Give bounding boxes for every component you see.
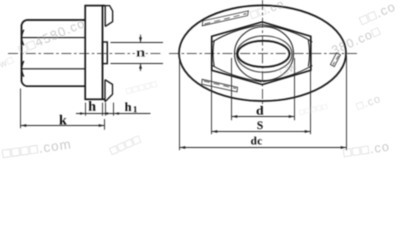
dimension d : extension lines bbox=[232, 58, 295, 120]
flange plate bbox=[85, 6, 105, 100]
dimension k : extension lines bbox=[21, 89, 105, 130]
dimension dc : arrows bbox=[180, 146, 347, 149]
nut chamfer arcs on left edge bbox=[22, 30, 24, 77]
dimension d : label bbox=[257, 106, 264, 115]
hexagon outline bbox=[212, 22, 311, 85]
dimension S : label bbox=[257, 121, 262, 129]
dimension k : label bbox=[59, 115, 66, 125]
pilot boss bbox=[103, 42, 108, 64]
hex nut body (side view) bbox=[22, 20, 86, 86]
dimension h : label bbox=[89, 101, 96, 111]
nut face lines bbox=[22, 38, 86, 69]
dimension h and h1 : extension lines bbox=[76, 103, 151, 116]
thread hole circle bbox=[238, 41, 290, 67]
vertical centerline bbox=[262, 0, 264, 104]
flange circle dc (outer ellipse) bbox=[179, 5, 346, 101]
hex face chamfer arcs bbox=[212, 25, 312, 82]
weld projection tab (bottom) bbox=[105, 80, 113, 102]
dimension h1 : label bbox=[125, 102, 131, 111]
dimension k : dimension line with arrows bbox=[21, 125, 105, 127]
thread major circle (thin) bbox=[237, 36, 292, 72]
weld projection mark (right) bbox=[330, 53, 340, 67]
dimension n : arrows bbox=[139, 37, 142, 68]
dimension n : label bbox=[135, 48, 146, 59]
dimension n : extension lines bbox=[111, 35, 164, 71]
dimension dc : extension lines bbox=[180, 56, 347, 151]
chamfer circle on hex face bbox=[235, 27, 294, 81]
dimension S : extension lines bbox=[212, 70, 311, 134]
weld projection tab (top) bbox=[105, 6, 112, 27]
dimension dc : label bbox=[251, 137, 257, 145]
dimension h/h1 : arrows bbox=[80, 112, 119, 115]
watermark text tiles bbox=[0, 1, 395, 158]
centerline (left view axis) bbox=[8, 53, 163, 55]
weld projection mark (lower-left) bbox=[202, 79, 238, 92]
dimension d : arrows bbox=[232, 115, 295, 118]
horizontal centerline bbox=[169, 53, 359, 55]
weld projection mark (upper-left) bbox=[202, 11, 248, 26]
dimension S : arrows bbox=[212, 130, 311, 133]
